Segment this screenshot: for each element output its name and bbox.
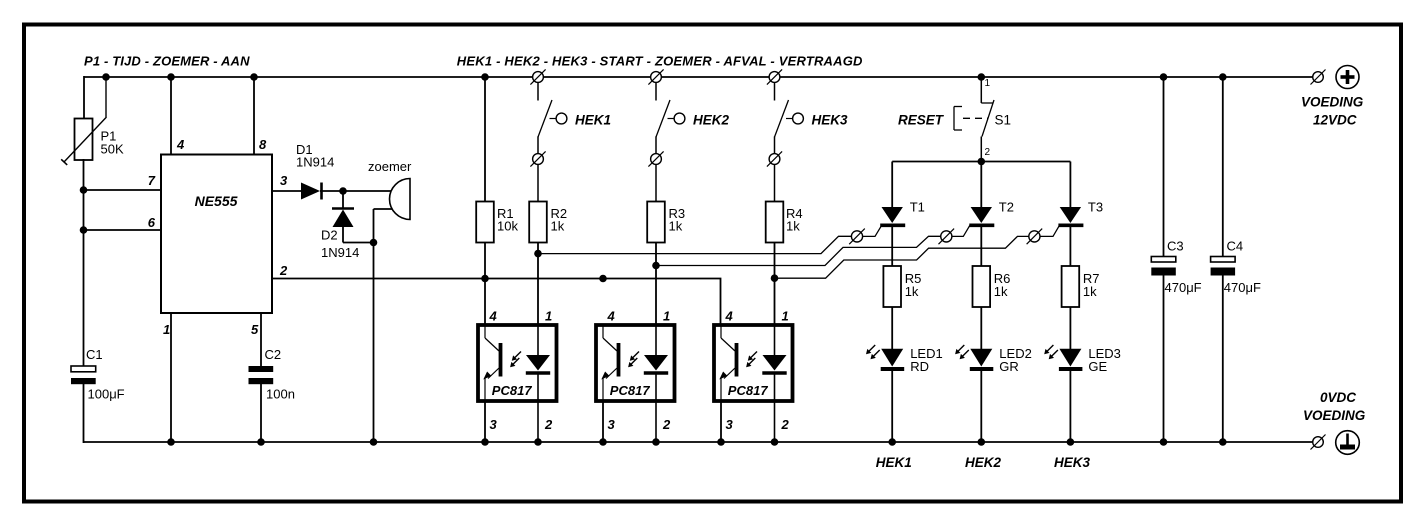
node pin1 ground xyxy=(167,438,175,446)
svg-text:HEK2: HEK2 xyxy=(965,455,1002,470)
op-amp U1 NE555 box xyxy=(161,155,272,314)
wire R7 to LED3 xyxy=(1069,307,1071,349)
wire LED1 to ground rail xyxy=(891,370,893,443)
node LED3 ground xyxy=(1067,438,1075,446)
svg-text:GE: GE xyxy=(1088,359,1107,374)
connector gate T3 xyxy=(1027,229,1043,245)
P1 wiper wire xyxy=(105,77,107,117)
node C4 ground xyxy=(1219,438,1227,446)
node pin6 junction xyxy=(80,226,88,234)
node zoemer ground xyxy=(370,438,378,446)
wire gate line T3 to cathode xyxy=(1040,225,1059,236)
switch S1 RESET xyxy=(954,77,994,162)
svg-text:470μF: 470μF xyxy=(1224,280,1261,295)
svg-text:10k: 10k xyxy=(497,219,518,234)
svg-text:HEK1 - HEK2 - HEK3 - START - Z: HEK1 - HEK2 - HEK3 - START - ZOEMER - AF… xyxy=(457,53,863,68)
svg-text:1k: 1k xyxy=(1083,284,1097,299)
svg-text:1k: 1k xyxy=(994,284,1008,299)
node zoemer return junction xyxy=(370,239,378,247)
svg-text:1k: 1k xyxy=(669,219,683,234)
svg-text:HEK3: HEK3 xyxy=(812,113,849,128)
svg-text:VOEDING: VOEDING xyxy=(1301,95,1364,110)
wire top supply rail xyxy=(84,76,1313,78)
svg-text:C1: C1 xyxy=(86,347,103,362)
node C3 ground xyxy=(1160,438,1168,446)
svg-text:PC817: PC817 xyxy=(492,383,533,398)
wire C3 to top rail xyxy=(1163,77,1165,257)
wire gate line T1 to cathode xyxy=(863,225,882,236)
switch HEK2 top terminal xyxy=(648,69,663,84)
wire R2 down to opto xyxy=(537,243,539,326)
node R1 pin2 rail junction xyxy=(481,275,489,283)
node LED2 ground xyxy=(978,438,986,446)
svg-text:C2: C2 xyxy=(265,347,282,362)
wire LED2 to ground rail xyxy=(980,370,982,443)
svg-text:1N914: 1N914 xyxy=(296,155,334,170)
connector 12VDC terminal xyxy=(1311,70,1326,85)
wire LED3 to ground rail xyxy=(1069,370,1071,443)
node pin8 top rail xyxy=(250,73,258,81)
node C3 top rail xyxy=(1160,73,1168,81)
diode D1 1N914 xyxy=(301,183,320,200)
svg-text:7: 7 xyxy=(148,173,156,188)
resistor R7 1k xyxy=(1062,266,1080,307)
svg-text:100n: 100n xyxy=(266,387,295,402)
wire left column from top rail to P1 xyxy=(83,76,85,118)
svg-text:P1 - TIJD - ZOEMER - AAN: P1 - TIJD - ZOEMER - AAN xyxy=(84,53,250,68)
pin 6 wire xyxy=(84,229,162,231)
svg-text:3: 3 xyxy=(280,173,288,188)
svg-text:zoemer: zoemer xyxy=(368,159,412,174)
opto-coupler U3 PC817 xyxy=(596,325,675,401)
pin 2 wire to opto rail xyxy=(272,279,721,326)
svg-text:2: 2 xyxy=(544,417,553,432)
buzzer zoemer xyxy=(390,178,411,219)
node U3 pin2 ground xyxy=(652,438,660,446)
wire HEK2 to resistor xyxy=(655,165,657,202)
wire gate line T1 xyxy=(538,236,851,253)
LED LED3 xyxy=(1044,345,1082,369)
svg-text:100μF: 100μF xyxy=(88,387,125,402)
wire gate line T2 xyxy=(656,236,941,265)
potentiometer P1 xyxy=(75,119,93,161)
svg-text:HEK1: HEK1 xyxy=(876,455,912,470)
wire U4 pin2 to ground xyxy=(774,325,776,355)
thyristor T3 xyxy=(1058,162,1083,267)
diode D2 1N914 xyxy=(342,191,344,209)
svg-text:470μF: 470μF xyxy=(1165,280,1202,295)
svg-text:1k: 1k xyxy=(551,219,565,234)
wire C2 to ground xyxy=(260,384,262,443)
svg-text:VOEDING: VOEDING xyxy=(1303,408,1366,423)
wire thyristor anode rail xyxy=(892,161,1070,163)
node U4 pin2 ground xyxy=(771,438,779,446)
node pin4 top rail xyxy=(167,73,175,81)
svg-text:4: 4 xyxy=(725,309,734,324)
node pin7 junction xyxy=(80,186,88,194)
node D1-D2-zoemer junction xyxy=(339,187,347,195)
node U3 pin3 ground xyxy=(599,438,607,446)
svg-text:PC817: PC817 xyxy=(728,383,769,398)
opto-coupler U4 PC817 xyxy=(714,325,793,401)
svg-text:1N914: 1N914 xyxy=(321,245,359,260)
svg-text:1: 1 xyxy=(163,322,170,337)
svg-text:4: 4 xyxy=(176,137,185,152)
wire R4 down to opto xyxy=(774,243,776,326)
wire gate line T3 xyxy=(775,236,1029,278)
svg-text:GR: GR xyxy=(999,359,1019,374)
resistor R1 10k xyxy=(476,202,494,243)
node pin5 ground xyxy=(257,438,265,446)
svg-text:HEK1: HEK1 xyxy=(575,113,611,128)
svg-text:RD: RD xyxy=(910,359,929,374)
node R2 gate-line junction xyxy=(534,250,542,258)
node R1 top rail xyxy=(481,73,489,81)
svg-text:NE555: NE555 xyxy=(195,193,238,209)
capacitor C3 470uF xyxy=(1151,257,1176,263)
wire gate line T2 to cathode xyxy=(952,225,970,236)
wire pin 4 to top rail xyxy=(170,77,172,155)
svg-text:T1: T1 xyxy=(910,200,925,215)
svg-text:1k: 1k xyxy=(905,284,919,299)
switch HEK1 xyxy=(538,83,567,155)
wire P1 to C1 xyxy=(83,159,85,367)
wire C4 to ground rail xyxy=(1222,276,1224,444)
LED LED2 xyxy=(955,345,993,369)
wire C1 to ground rail xyxy=(83,384,85,443)
wire bottom ground rail xyxy=(84,441,1313,443)
svg-text:5: 5 xyxy=(251,322,259,337)
ground terminal symbol xyxy=(1336,431,1360,455)
wire C3 to ground rail xyxy=(1163,276,1165,444)
switch HEK1 top terminal xyxy=(530,69,545,84)
thyristor T2 xyxy=(969,162,994,267)
svg-text:S1: S1 xyxy=(995,113,1012,128)
wire C4 to top rail xyxy=(1222,77,1224,257)
resistor R5 1k xyxy=(883,266,901,307)
wire HEK1 to resistor xyxy=(537,165,539,202)
plus terminal symbol xyxy=(1336,66,1359,89)
connector 0VDC terminal xyxy=(1311,435,1326,450)
switch HEK2 bottom terminal xyxy=(648,151,663,166)
wire U3 pin2 to ground xyxy=(655,325,657,355)
wire U4 pin3 to ground xyxy=(720,401,722,443)
svg-text:T3: T3 xyxy=(1088,200,1103,215)
capacitor C2 xyxy=(249,366,274,372)
svg-text:3: 3 xyxy=(490,417,498,432)
svg-text:1: 1 xyxy=(782,309,789,324)
svg-text:4: 4 xyxy=(489,309,498,324)
LED LED1 xyxy=(866,345,904,369)
pin 1 wire xyxy=(170,313,172,443)
svg-text:3: 3 xyxy=(726,417,734,432)
svg-text:2: 2 xyxy=(279,263,288,278)
node P1 wiper junction xyxy=(102,73,110,81)
capacitor C1 xyxy=(71,366,96,372)
switch HEK3 top terminal xyxy=(767,69,782,84)
switch HEK3 bottom terminal xyxy=(767,151,782,166)
node U4 pin3 ground xyxy=(717,438,725,446)
svg-text:1: 1 xyxy=(985,78,991,89)
wire R1 to opto1 pin4 xyxy=(484,243,486,326)
svg-text:8: 8 xyxy=(259,137,267,152)
switch HEK1 bottom terminal xyxy=(530,151,545,166)
switch HEK2 xyxy=(656,83,685,155)
svg-text:4: 4 xyxy=(607,309,616,324)
svg-text:1: 1 xyxy=(545,309,552,324)
connector gate T1 xyxy=(849,229,865,245)
svg-text:12VDC: 12VDC xyxy=(1313,113,1357,128)
wire U2 pin3 to ground xyxy=(484,401,486,443)
node opto2 pin4 junction xyxy=(599,275,607,283)
svg-text:2: 2 xyxy=(985,147,991,158)
wire R1 to top rail xyxy=(484,77,486,202)
svg-text:HEK2: HEK2 xyxy=(693,113,730,128)
resistor R4 1k xyxy=(766,202,784,243)
svg-text:50K: 50K xyxy=(101,142,124,157)
resistor R2 1k xyxy=(529,202,547,243)
svg-text:1: 1 xyxy=(663,309,670,324)
svg-text:D2: D2 xyxy=(321,228,338,243)
svg-text:C4: C4 xyxy=(1227,239,1244,254)
opto-coupler U2 PC817 xyxy=(478,325,557,401)
svg-text:1k: 1k xyxy=(786,219,800,234)
pin 3 wire xyxy=(272,190,302,192)
wire HEK3 to resistor xyxy=(774,165,776,202)
svg-text:RESET: RESET xyxy=(898,113,945,128)
wire D1 to zoemer xyxy=(320,190,391,192)
node R3 gate-line junction xyxy=(652,262,660,270)
node S1 top rail xyxy=(978,73,986,81)
wire U2 pin2 to ground xyxy=(537,325,539,355)
node U2 pin2 ground xyxy=(534,438,542,446)
connector gate T2 xyxy=(939,229,955,245)
svg-text:2: 2 xyxy=(781,417,790,432)
svg-text:3: 3 xyxy=(608,417,616,432)
capacitor C4 470uF xyxy=(1211,257,1236,263)
switch HEK3 xyxy=(775,83,804,155)
wire D2 anode to zoemer return xyxy=(343,242,374,244)
wire U3 pin3 to ground xyxy=(602,401,604,443)
wire zoemer bottom terminal xyxy=(374,208,393,210)
node U2 pin3 ground xyxy=(481,438,489,446)
svg-text:6: 6 xyxy=(148,215,156,230)
svg-text:T2: T2 xyxy=(999,200,1014,215)
node LED1 ground xyxy=(888,438,896,446)
svg-text:HEK3: HEK3 xyxy=(1054,455,1091,470)
thyristor T1 xyxy=(880,162,905,267)
wire R3 down to opto xyxy=(655,243,657,326)
svg-text:2: 2 xyxy=(662,417,671,432)
node C4 top rail xyxy=(1219,73,1227,81)
pin 7 wire xyxy=(84,189,162,191)
svg-text:C3: C3 xyxy=(1167,239,1184,254)
wire zoemer return to ground xyxy=(373,209,375,443)
node R4 gate-line junction xyxy=(771,274,779,282)
node S1 bottom junction xyxy=(978,158,986,166)
resistor R3 1k xyxy=(647,202,665,243)
wire R5 to LED1 xyxy=(891,307,893,349)
pin 5 wire xyxy=(260,313,262,367)
svg-text:PC817: PC817 xyxy=(610,383,651,398)
wire R6 to LED2 xyxy=(980,307,982,349)
resistor R6 1k xyxy=(973,266,991,307)
wire pin 8 to top rail xyxy=(253,77,255,155)
svg-text:0VDC: 0VDC xyxy=(1320,390,1356,405)
